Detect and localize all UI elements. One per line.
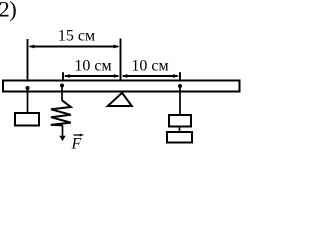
svg-text:15 см: 15 см bbox=[58, 28, 95, 45]
svg-text:F: F bbox=[71, 136, 82, 153]
svg-text:10 см: 10 см bbox=[131, 58, 168, 75]
svg-text:10 см: 10 см bbox=[74, 58, 111, 75]
svg-text:2): 2) bbox=[0, 0, 16, 22]
